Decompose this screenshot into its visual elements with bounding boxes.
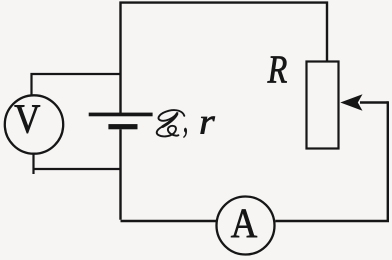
wire: battery positive lead up from battery, top run, down to rheostat top terminal <box>121 3 328 114</box>
wire: voltmeter top parallel tap <box>32 74 121 96</box>
ammeter A (circle with letter A) <box>217 197 275 255</box>
rheostat R: resistor body rectangle <box>307 62 339 149</box>
voltmeter V (circle with letter V) <box>5 95 63 153</box>
battery B1 (EMF source ℰ, internal resistance r): long positive plate <box>89 113 153 117</box>
value label r (internal resistance, italic) <box>201 117 215 134</box>
wire: bottom run left of ammeter <box>121 220 217 222</box>
value label ℰ (EMF, script E drawn as path) <box>157 110 185 136</box>
wire: bottom run right of ammeter <box>275 220 389 222</box>
wire: voltmeter bottom parallel tap <box>33 154 121 174</box>
rheostat wiper arrow head (points left into body) <box>340 94 362 110</box>
wire: right branch down <box>387 101 389 221</box>
wire: rheostat wiper stub from right branch <box>360 101 388 103</box>
battery B1: short thick negative plate <box>108 124 137 129</box>
wire: battery bottom lead down to bottom run <box>119 129 121 220</box>
label R (italic) for rheostat <box>268 57 287 83</box>
value label comma between ℰ and r <box>184 128 187 138</box>
